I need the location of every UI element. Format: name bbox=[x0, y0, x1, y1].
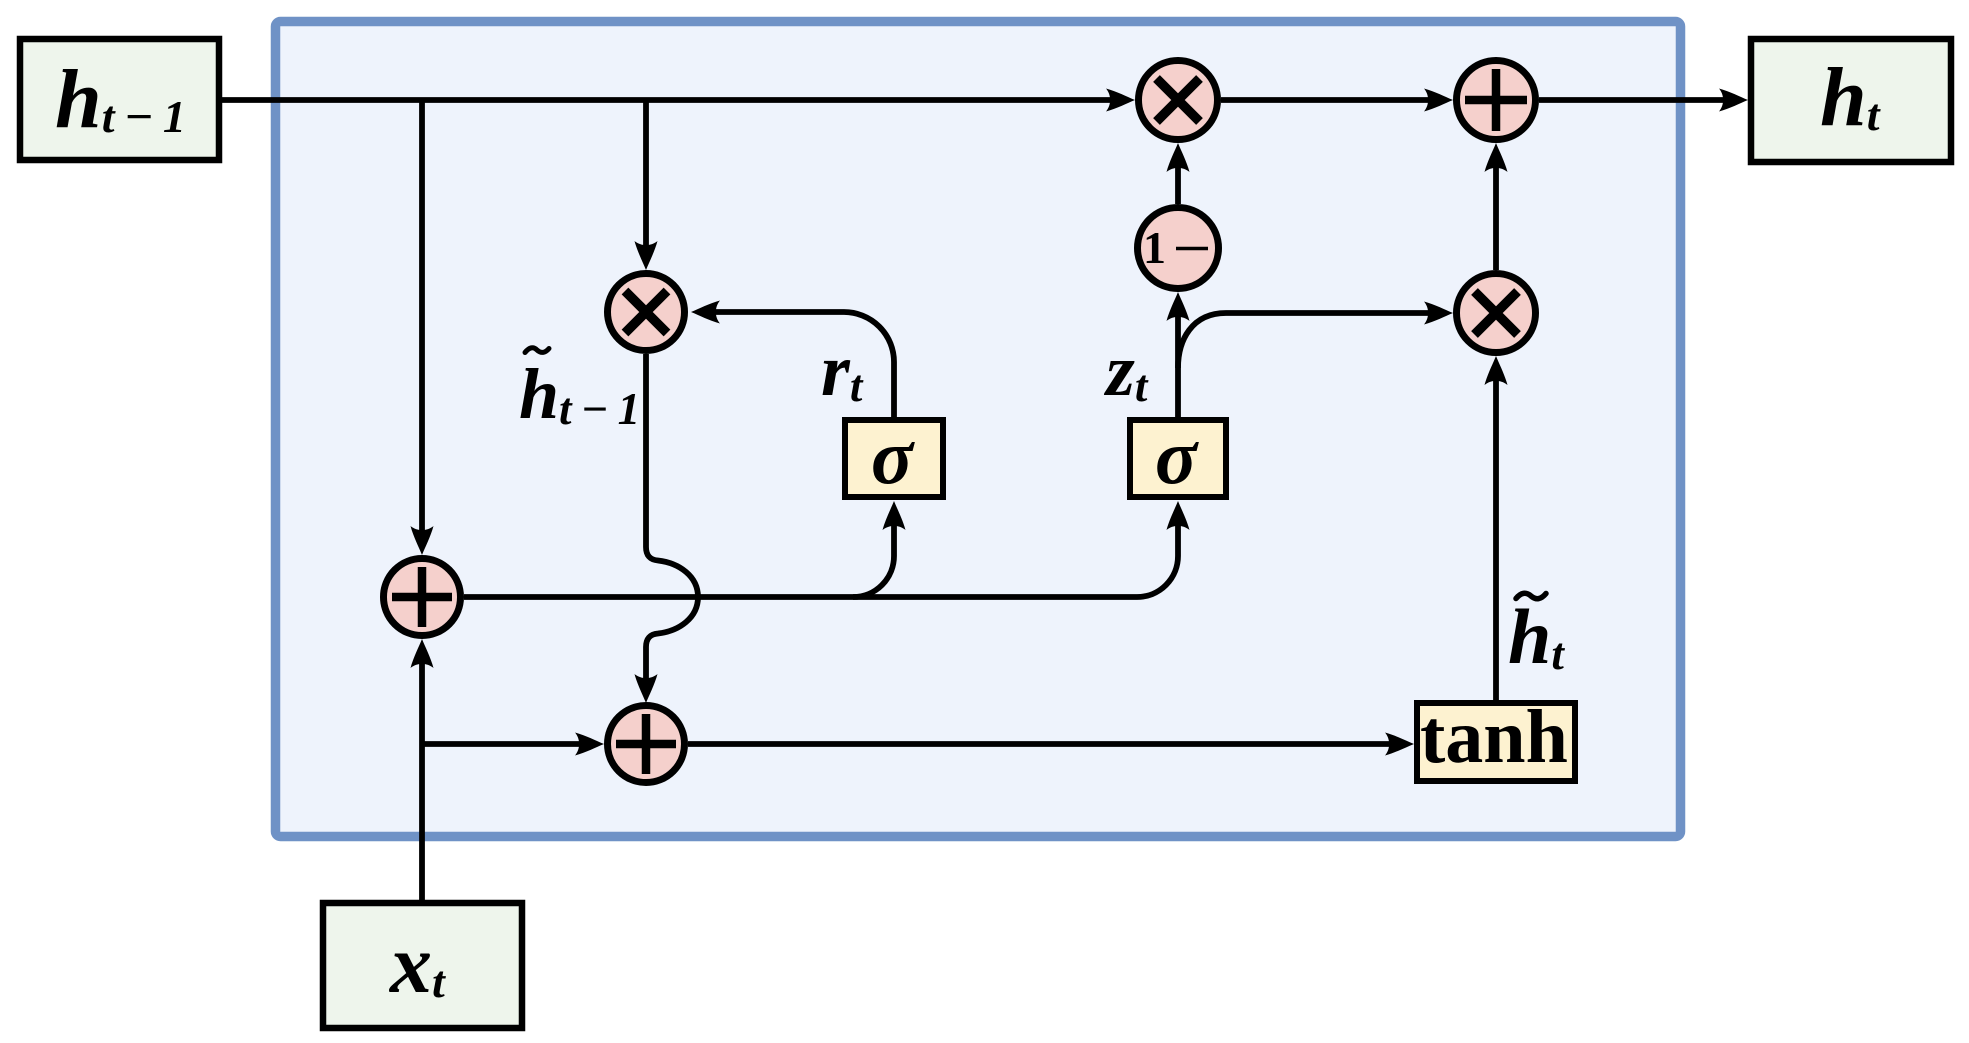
box x_t bbox=[323, 903, 522, 1028]
wire: x_t branch right to plus bottom bbox=[422, 741, 581, 747]
multiply left circle bbox=[608, 274, 685, 351]
arrowhead into plus top bottom bbox=[1485, 143, 1508, 172]
plus left circle bbox=[384, 559, 461, 636]
multiply top circle bbox=[1139, 61, 1218, 140]
wire: plus left output bus with curve up into sigma2 bbox=[464, 524, 1178, 597]
arrowhead into sigma1 bottom bbox=[883, 501, 906, 530]
arrowhead into multiply left right side bbox=[691, 301, 720, 324]
arrowhead into multiply right left side bbox=[1424, 302, 1453, 325]
sigma2 box bbox=[1130, 420, 1226, 497]
wire: z_t branch to multiply right bbox=[1178, 313, 1430, 368]
arrowhead into plus bottom left bbox=[575, 733, 604, 756]
wire: branch down to plus left bbox=[419, 100, 425, 532]
box h_t bbox=[1751, 39, 1951, 162]
arrowhead into sigma2 bottom bbox=[1167, 501, 1190, 530]
wire: plus bottom to tanh bbox=[688, 741, 1391, 747]
wire: plus top to h_t bbox=[1539, 97, 1725, 103]
arrowhead into plus left bottom bbox=[411, 639, 434, 668]
svg-text:σ: σ bbox=[1155, 413, 1199, 500]
wire: x_t vertical up to plus left bbox=[419, 662, 425, 900]
arrowhead into multiply right bottom bbox=[1485, 356, 1508, 385]
wire: multiply left down with hop over bus to plus bottom bbox=[646, 354, 698, 680]
arrowhead into multiply left top bbox=[635, 241, 658, 270]
wire: z_t vertical from sigma2 up to one-minus bbox=[1175, 315, 1181, 417]
wire: multiply top to plus top bbox=[1221, 97, 1430, 103]
arrowhead into one-minus bottom bbox=[1167, 292, 1190, 321]
box h_{t-1} bbox=[20, 39, 219, 160]
arrowhead into multiply top bottom bbox=[1167, 143, 1190, 172]
plus bottom circle bbox=[608, 706, 685, 783]
wire: r_t from sigma1 to multiply left bbox=[714, 312, 894, 417]
svg-text:tanh: tanh bbox=[1420, 695, 1568, 779]
wire: multiply right to plus top bbox=[1493, 166, 1499, 270]
wire: one-minus to multiply top bbox=[1175, 166, 1181, 204]
arrowhead into tanh left bbox=[1385, 733, 1414, 756]
arrowhead into multiply top bbox=[1106, 89, 1135, 112]
GRU cell background box bbox=[276, 22, 1681, 837]
plus top circle bbox=[1457, 61, 1536, 140]
wire: h_{t-1} output top bus bbox=[222, 97, 1112, 103]
arrowhead into h_t bbox=[1719, 89, 1748, 112]
tanh box bbox=[1417, 703, 1575, 781]
wire: tanh up to multiply right bbox=[1493, 379, 1499, 700]
wire: branch down to multiply left bbox=[643, 100, 649, 247]
multiply right circle bbox=[1457, 274, 1536, 353]
svg-text:σ: σ bbox=[871, 413, 915, 500]
arrowhead into plus top left bbox=[1424, 89, 1453, 112]
sigma1 box bbox=[845, 420, 943, 497]
arrowhead into plus bottom top bbox=[635, 674, 658, 703]
tilde accent of h-tilde t bbox=[1516, 593, 1546, 598]
one-minus circle bbox=[1138, 208, 1219, 289]
wire: branch peel up into sigma1 bbox=[853, 524, 894, 597]
svg-text:1: 1 bbox=[1143, 222, 1166, 273]
arrowhead into plus left top bbox=[411, 526, 434, 555]
tilde accent of h-tilde t-1 bbox=[525, 348, 549, 353]
